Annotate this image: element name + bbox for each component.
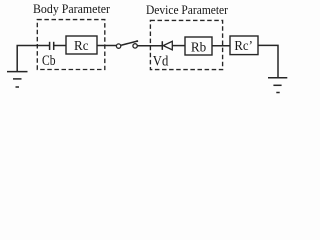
svg-text:Rc’: Rc’ (234, 39, 253, 54)
svg-text:Cb: Cb (42, 53, 56, 69)
svg-text:Body Parameter: Body Parameter (33, 1, 111, 16)
svg-text:Rc: Rc (74, 39, 89, 54)
svg-text:Vd: Vd (153, 54, 169, 70)
svg-text:Rb: Rb (191, 41, 206, 56)
svg-text:Device Parameter: Device Parameter (146, 2, 229, 17)
